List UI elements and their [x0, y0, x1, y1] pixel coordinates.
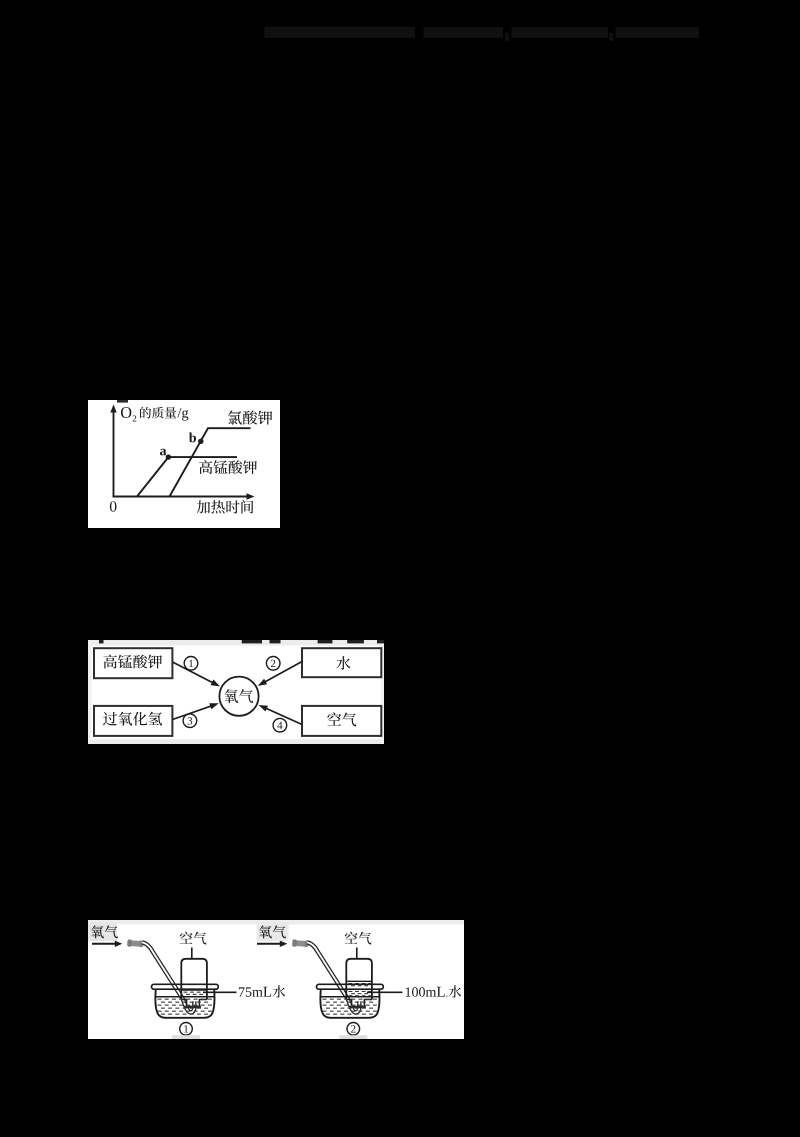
fig3-1 basin water surface	[156, 996, 214, 998]
fig3-2 bottle lip	[349, 1006, 366, 1009]
fig1 x-axis label 加热时间	[197, 500, 254, 513]
fig3-1 oxygen inlet arrow	[92, 943, 117, 945]
fig3-1 pointer line to bottle	[191, 948, 193, 960]
fig2 circle 氧气	[219, 677, 258, 716]
figure 1 white panel	[88, 400, 280, 528]
fig2 right gray strip	[381, 640, 384, 744]
fig3 circled number 1	[180, 1023, 193, 1036]
fig3 gray patch behind left 氧气	[88, 922, 117, 941]
faint title text block 4	[616, 27, 700, 38]
fig3 left label 氧气	[91, 925, 118, 938]
fig1 label b	[189, 432, 196, 442]
fig3-1 water hatch	[158, 999, 162, 1000]
fig3 gray patch behind right 氧气	[257, 922, 289, 941]
fig1 y-axis label O2的质量/g	[121, 407, 188, 422]
fig2 top edge text remnant	[377, 640, 384, 643]
fig2 arrow 3	[173, 706, 212, 720]
fig3-2 oxygen inlet arrow	[257, 943, 282, 945]
fig1 x-axis arrowhead	[247, 493, 255, 499]
fig2 box 水	[302, 648, 381, 677]
fig2 top gray strip	[88, 640, 384, 646]
fig3-2 collection bottle	[346, 959, 372, 1000]
fig3-2 glass tube	[307, 942, 359, 1012]
fig3-2 water hatch	[323, 999, 327, 1000]
fig2 top edge text remnant	[270, 640, 281, 643]
fig2 top edge text remnant	[347, 640, 364, 643]
faint title comma 1	[505, 33, 509, 41]
fig2 circled number 4	[273, 718, 287, 732]
faint title text block 3	[512, 27, 609, 38]
fig1 y-axis arrowhead	[110, 405, 116, 413]
figure 3 white panel	[88, 920, 464, 1039]
fig3 right pointer line 100mL水	[367, 991, 403, 993]
fig3-2 rubber nozzle	[292, 939, 309, 947]
fig1 x-axis	[113, 496, 251, 498]
fig2 box 空气	[302, 706, 381, 736]
faint title text block 2	[424, 27, 504, 38]
fig1 point a dot	[166, 454, 171, 459]
fig3 circled number 2	[347, 1023, 360, 1036]
fig3 top gray strip	[88, 920, 464, 925]
figure 2 white panel	[88, 640, 384, 744]
fig3-2 water surface in bottle	[347, 980, 371, 982]
fig2 top edge text remnant	[318, 640, 333, 643]
fig3-1 glass tube	[142, 942, 194, 1012]
fig2 bottom gray strip	[88, 739, 384, 744]
fig3-1 water surface in bottle	[182, 989, 206, 991]
fig1 y-axis	[113, 408, 115, 497]
fig2 box 高锰酸钾	[94, 648, 172, 678]
fig3-1 bottle mouth	[181, 1000, 207, 1007]
fig3 label 100mL水	[406, 985, 462, 997]
fig3-2 basin rim	[317, 984, 384, 989]
fig3-2 basin water surface	[321, 996, 379, 998]
fig1 label 氯酸钾	[228, 410, 273, 424]
fig3-1 bottle lip	[184, 1006, 201, 1009]
fig3 gray strip below number	[172, 1035, 200, 1039]
fig1 label 高锰酸钾	[199, 460, 257, 474]
fig1 curve potassium permanganate	[137, 457, 237, 496]
fig2 circled number 3	[183, 714, 197, 728]
fig3 left label 空气	[180, 932, 207, 945]
fig3 left pointer line 75mL水	[203, 991, 237, 993]
fig3 right label 空气	[345, 932, 372, 945]
fig3-2 basin body	[320, 989, 379, 1018]
fig3-1 basin body	[155, 989, 214, 1018]
fig3 right label 氧气	[259, 925, 286, 938]
fig2 arrow 1	[173, 662, 214, 683]
fig3-1 rubber nozzle	[127, 939, 144, 947]
fig2 circled number 2	[266, 657, 280, 671]
fig3-2 bottle mouth	[346, 1000, 372, 1007]
fig3 gray strip below number	[339, 1035, 367, 1039]
fig2 arrow 2	[264, 662, 302, 683]
fig2 box 过氧化氢	[94, 706, 172, 736]
fig1 top edge mark	[117, 400, 128, 403]
faint title text block 1	[265, 27, 416, 39]
fig2 circled number 1	[184, 657, 198, 671]
fig3 label 75mL水	[239, 985, 285, 997]
fig3-1 collection bottle	[181, 959, 207, 1000]
fig1 origin 0	[110, 501, 117, 511]
faint title comma 2	[609, 33, 614, 41]
fig3-2 pointer line to bottle	[356, 948, 358, 960]
fig2 top edge text remnant	[242, 640, 262, 643]
fig2 top edge text remnant	[99, 640, 104, 643]
fig1 label a	[160, 449, 166, 456]
fig2 left gray strip	[88, 640, 92, 744]
fig3-1 basin rim	[152, 984, 219, 989]
fig1 curve potassium chlorate	[170, 428, 251, 496]
fig1 point b dot	[198, 439, 203, 444]
fig2 arrow 4	[265, 708, 302, 725]
